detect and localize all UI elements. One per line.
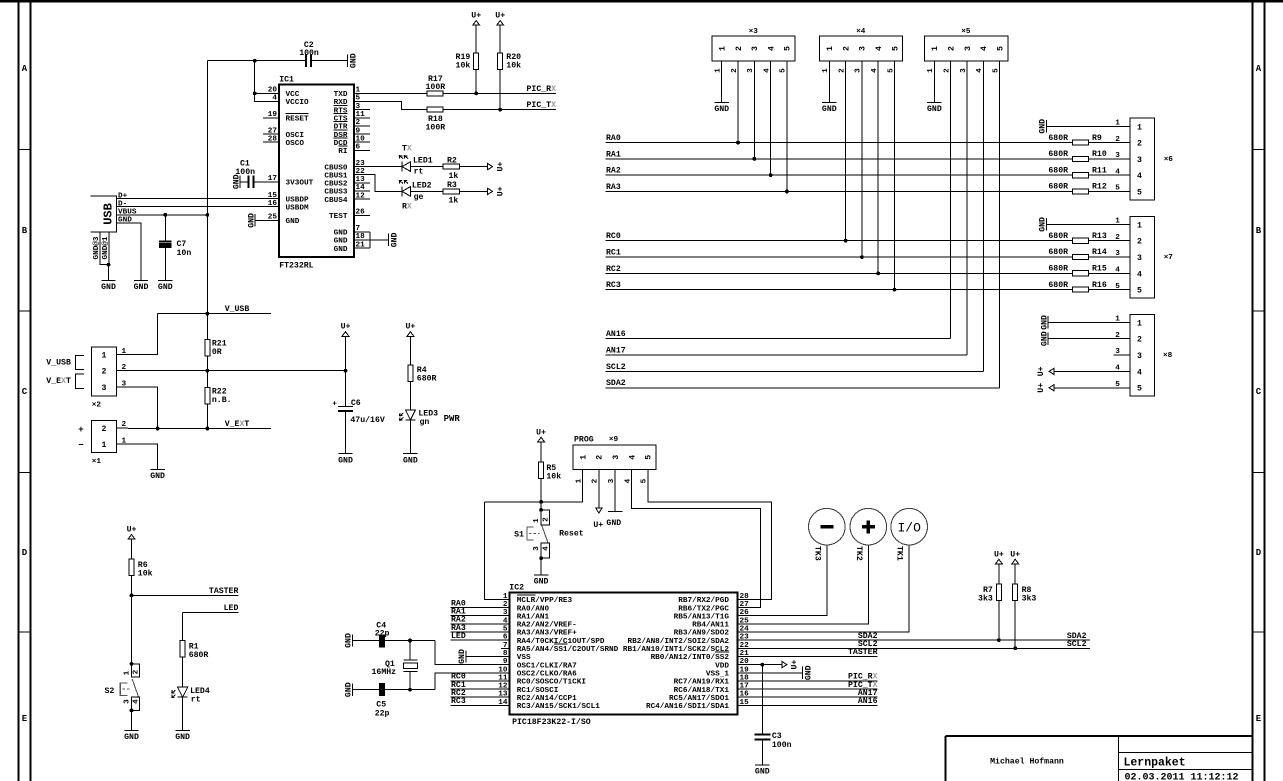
wire R14 to X7 xyxy=(1089,256,1130,258)
svg-text:U+: U+ xyxy=(496,186,505,196)
svg-text:21: 21 xyxy=(356,241,366,249)
ground at C2 xyxy=(347,53,358,68)
svg-text:20: 20 xyxy=(268,87,278,95)
wire shield pins to ground xyxy=(108,265,110,281)
junction shield ground xyxy=(107,263,111,267)
svg-text:10k: 10k xyxy=(506,61,521,71)
wire net RA0 to IC2 xyxy=(451,607,510,609)
svg-text:V_USB: V_USB xyxy=(225,305,250,314)
ground at IC2 VSS xyxy=(458,649,467,664)
svg-text:SDA2: SDA2 xyxy=(606,379,626,388)
junction X4 pin2 xyxy=(844,239,848,243)
IC2 pin 11 RC0/SOSCO/T1CKI xyxy=(498,674,586,686)
V+ supply at R8 xyxy=(1010,550,1020,566)
X8 pin 3 stub xyxy=(1114,354,1130,356)
wire R15 to X7 xyxy=(1089,272,1130,274)
wire V+ to R5 xyxy=(540,444,542,462)
svg-text:3: 3 xyxy=(122,380,127,388)
V+ supply at R5 xyxy=(536,428,546,444)
svg-text:×5: ×5 xyxy=(961,28,971,36)
svg-text:2: 2 xyxy=(1137,238,1142,247)
svg-text:VSS_1: VSS_1 xyxy=(706,671,729,679)
wire V+ to R20 xyxy=(499,28,501,53)
wire X9 pin1 to MCLR xyxy=(582,470,584,502)
resistor R8 xyxy=(1013,584,1018,600)
wire X4 pin3 down to bus xyxy=(861,61,863,257)
IC1 pin 1 TXD xyxy=(334,87,370,100)
wire net RC3 xyxy=(606,289,1073,291)
resistor R7 xyxy=(996,584,1001,600)
svg-text:1: 1 xyxy=(719,46,728,51)
wire V+ to R7 xyxy=(998,566,1000,584)
wire joining IC1 ground pins xyxy=(369,232,371,248)
svg-text:SCL2: SCL2 xyxy=(1067,640,1087,649)
svg-text:S1: S1 xyxy=(514,530,524,539)
svg-text:R2: R2 xyxy=(447,156,457,165)
svg-text:2: 2 xyxy=(122,421,127,429)
V+ supply at C6 xyxy=(341,323,351,339)
svg-text:7: 7 xyxy=(503,642,508,650)
svg-text:12: 12 xyxy=(356,192,366,200)
svg-text:680R: 680R xyxy=(1048,134,1068,143)
svg-text:GND: GND xyxy=(350,53,359,68)
IC2 pin 15 RC4/AN16/SDI1/SDA1 xyxy=(646,699,749,711)
IC1 pin 16 USBDM xyxy=(263,200,309,213)
X4 pin 2 xyxy=(838,46,851,73)
svg-text:14: 14 xyxy=(356,184,366,192)
V+ supply at R6 xyxy=(127,526,137,542)
svg-text:×2: ×2 xyxy=(92,401,102,409)
svg-text:19: 19 xyxy=(268,111,278,119)
junction V+ rail at C6 xyxy=(344,369,348,373)
svg-text:×9: ×9 xyxy=(609,436,619,444)
svg-text:RB3/AN9/SDO2: RB3/AN9/SDO2 xyxy=(674,630,730,638)
IC1 pin 19 RESET xyxy=(263,111,309,124)
wire ground to C1 xyxy=(240,181,248,183)
svg-text:4: 4 xyxy=(628,455,637,460)
svg-text:4: 4 xyxy=(980,46,989,51)
wire C4 to OSC1 node xyxy=(385,640,435,642)
svg-text:1: 1 xyxy=(122,437,127,445)
svg-text:U+: U+ xyxy=(496,162,505,172)
svg-text:gn: gn xyxy=(420,418,430,427)
wire LED down to R1 xyxy=(182,612,184,640)
crystal Q1 xyxy=(403,641,417,690)
X5 pin 5 xyxy=(992,46,1005,73)
wire net RC0 to IC2 xyxy=(451,680,510,682)
wire VCC spine to VCCIO pin xyxy=(255,61,263,102)
svg-text:RC3: RC3 xyxy=(606,281,621,290)
IC1 pin 22 CBUS1 xyxy=(324,168,370,181)
wire V+ to C6 xyxy=(345,339,347,407)
svg-text:TXD: TXD xyxy=(334,91,348,99)
wire CBUS1 to LED2 xyxy=(370,175,402,192)
svg-text:LED: LED xyxy=(451,632,466,641)
IC2 pin 21 RB0/AN12/INT0/SS2 xyxy=(651,650,750,662)
svg-text:2: 2 xyxy=(133,669,141,674)
svg-text:I/O: I/O xyxy=(897,521,921,536)
svg-text:RA5/AN4/SS1/C2OUT/SRND: RA5/AN4/SS1/C2OUT/SRND xyxy=(517,646,619,654)
IC2 pin 6 RA4/T0CKI/C1OUT/SPD xyxy=(501,634,605,646)
svg-text:U+: U+ xyxy=(471,12,481,21)
wire R6 to S2 xyxy=(131,575,133,664)
resistor R3 xyxy=(443,189,459,194)
svg-text:IC2: IC2 xyxy=(509,583,524,592)
frame top border xyxy=(0,0,1283,2)
junction X3 pin3 xyxy=(752,157,756,161)
wire X9 pin4 PGC to IC2 pin 27 xyxy=(632,470,761,608)
svg-text:×8: ×8 xyxy=(1163,352,1173,360)
capacitor C5 xyxy=(379,683,385,696)
touch key TK1 xyxy=(891,508,928,545)
svg-text:GND: GND xyxy=(458,649,467,664)
wire R22 to V_EXT xyxy=(206,404,208,428)
wire X5 pin4 down to bus xyxy=(982,61,984,372)
junction X4 pin5 xyxy=(893,288,897,292)
wire R13 to X7 xyxy=(1089,240,1130,242)
junction V+ rail at R21/R22 xyxy=(206,369,210,373)
X5 pin 2 xyxy=(944,46,957,73)
svg-text:6: 6 xyxy=(356,144,361,152)
svg-text:1: 1 xyxy=(1137,319,1142,328)
svg-text:680R: 680R xyxy=(1048,281,1068,290)
wire net RA3 xyxy=(606,191,1073,193)
svg-text:CBUS3: CBUS3 xyxy=(324,189,347,197)
svg-text:S2: S2 xyxy=(105,687,115,696)
junction X4 pin4 xyxy=(876,272,880,276)
junction X3 pin4 xyxy=(769,173,773,177)
svg-text:USBDM: USBDM xyxy=(286,204,309,212)
V+ arrow at X8 pin 5 xyxy=(1049,385,1054,391)
svg-text:100R: 100R xyxy=(426,83,446,92)
resistor R6 xyxy=(129,559,134,575)
svg-text:GND: GND xyxy=(124,733,139,742)
wire V_USB vertical spine xyxy=(206,61,208,340)
svg-text:GND: GND xyxy=(247,213,256,228)
junction S1 bottom xyxy=(539,556,543,560)
X7 pin 4 xyxy=(1115,267,1142,280)
svg-text:DTR: DTR xyxy=(334,124,348,132)
IC2 pin 23 RB2/AN8/INT2/SOI2/SDA2 xyxy=(628,634,750,646)
IC2 pin 10 OSC2/CLKO/RA6 xyxy=(498,666,577,678)
capacitor C3 xyxy=(755,734,771,739)
svg-text:TX: TX xyxy=(402,145,412,154)
X1 pin 2 xyxy=(102,421,128,434)
X8 pin 4 xyxy=(1115,365,1142,378)
svg-text:V_USB: V_USB xyxy=(46,358,71,367)
svg-text:U+: U+ xyxy=(994,550,1004,559)
svg-text:2: 2 xyxy=(735,46,744,51)
LED2 yellow RX LED xyxy=(399,180,411,196)
wire IC2 pin 25 to TK2 xyxy=(746,545,869,624)
svg-text:2: 2 xyxy=(948,46,957,51)
resistor R20 xyxy=(498,53,503,69)
svg-text:1: 1 xyxy=(356,87,361,95)
wire X1 pin 1 to ground xyxy=(128,444,158,469)
svg-text:680R: 680R xyxy=(417,375,437,384)
wire USB VBUS to V_USB spine xyxy=(117,214,208,216)
IC2 pin 28 RB7/RX2/PGD xyxy=(678,593,749,605)
svg-text:10: 10 xyxy=(356,135,366,143)
X9 pin 4 xyxy=(624,455,637,484)
wire net SDA2 xyxy=(606,387,1000,389)
svg-text:7: 7 xyxy=(356,225,361,233)
X4 pin 5 xyxy=(887,46,900,73)
svg-text:2: 2 xyxy=(596,455,605,460)
ground at USB shield xyxy=(101,281,116,293)
svg-text:GND: GND xyxy=(1040,315,1049,330)
wire USB D+ to USBDP xyxy=(117,198,263,200)
resistor R4 xyxy=(408,365,413,381)
svg-text:Reset: Reset xyxy=(559,530,584,539)
wire ground to pin 25 xyxy=(255,219,263,221)
X7 pin 1 xyxy=(1115,218,1142,231)
svg-text:2: 2 xyxy=(1137,336,1142,345)
connector X2 xyxy=(92,347,117,396)
svg-text:×1: ×1 xyxy=(92,458,102,466)
wire R7 to SDA2 xyxy=(998,600,1000,640)
svg-text:×3: ×3 xyxy=(749,28,759,36)
svg-text:GND: GND xyxy=(101,283,116,292)
svg-text:680R: 680R xyxy=(1048,166,1068,175)
wire X4 pin1 to ground xyxy=(828,61,830,103)
wire to VCC pin xyxy=(255,92,263,94)
wire X6 pin1 to ground xyxy=(1046,125,1130,127)
svg-text:3: 3 xyxy=(356,103,361,111)
IC1 pin 7 GND xyxy=(334,225,370,238)
svg-text:E: E xyxy=(1256,714,1262,724)
svg-text:ge: ge xyxy=(414,193,424,202)
svg-text:rt: rt xyxy=(191,696,201,705)
svg-text:RC7/AN19/RX1: RC7/AN19/RX1 xyxy=(674,679,730,687)
svg-text:3: 3 xyxy=(751,46,760,51)
svg-text:RA1/AN1: RA1/AN1 xyxy=(517,613,550,621)
connector X7 xyxy=(1130,216,1155,298)
wire X8 pin2 to ground xyxy=(1048,338,1130,340)
svg-text:SCL2: SCL2 xyxy=(606,363,626,372)
svg-text:GND: GND xyxy=(175,733,190,742)
svg-text:TK1: TK1 xyxy=(895,546,904,561)
svg-text:U+: U+ xyxy=(127,526,137,535)
svg-text:GND: GND xyxy=(714,105,729,114)
svg-text:CBUS2: CBUS2 xyxy=(324,181,347,189)
IC1 pin 28 OSCO xyxy=(263,135,304,148)
svg-text:1k: 1k xyxy=(449,171,459,181)
wire net RC2 to IC2 xyxy=(451,696,510,698)
svg-text:C3: C3 xyxy=(772,732,782,741)
svg-text:18: 18 xyxy=(356,233,366,241)
ground at X3 pin 1 xyxy=(714,102,729,114)
wire X5 pin1 to ground xyxy=(933,61,935,103)
wire net SCL2 xyxy=(746,647,1090,649)
ground at S1 xyxy=(534,575,549,587)
svg-text:27: 27 xyxy=(740,601,750,609)
resistor R11 xyxy=(1072,173,1088,178)
ground at C5 xyxy=(345,682,354,697)
svg-text:Michael Hofmann: Michael Hofmann xyxy=(990,757,1064,767)
wire S1 to ground xyxy=(540,558,542,575)
connector X8 xyxy=(1130,314,1155,396)
wire ground to C5 xyxy=(353,689,379,691)
svg-text:GND: GND xyxy=(158,283,173,292)
junction VCC spine top xyxy=(253,59,257,63)
resistor R2 xyxy=(443,164,459,169)
X8 pin 5 xyxy=(1115,381,1142,394)
svg-text:3: 3 xyxy=(1137,352,1142,361)
wire X5 pin3 down to bus xyxy=(966,61,968,355)
svg-text:RA3/AN3/VREF+: RA3/AN3/VREF+ xyxy=(517,630,577,638)
wire R5 to S1 xyxy=(540,478,542,510)
svg-text:RA4/T0CKI/C1OUT/SPD: RA4/T0CKI/C1OUT/SPD xyxy=(517,638,605,646)
svg-text:26: 26 xyxy=(356,209,366,217)
svg-text:rt: rt xyxy=(414,168,424,177)
wire LED2 to R3 xyxy=(411,190,443,192)
svg-text:LED3: LED3 xyxy=(418,409,438,418)
junction X4 pin3 xyxy=(860,255,864,259)
svg-text:RB2/AN8/INT2/SOI2/SDA2: RB2/AN8/INT2/SOI2/SDA2 xyxy=(628,638,730,646)
svg-text:A: A xyxy=(22,64,28,74)
svg-text:AN16: AN16 xyxy=(606,330,626,339)
svg-text:TASTER: TASTER xyxy=(209,587,239,596)
svg-text:100n: 100n xyxy=(772,741,792,750)
svg-text:16: 16 xyxy=(268,200,278,208)
wire net V_EXT xyxy=(128,428,271,430)
IC1 pin 21 GND xyxy=(334,241,370,254)
wire net RC1 to IC2 xyxy=(451,688,510,690)
svg-text:GND@1: GND@1 xyxy=(102,236,110,259)
svg-text:RB1/AN10/INT1/SCK2/SCL2: RB1/AN10/INT1/SCK2/SCL2 xyxy=(623,646,729,654)
svg-text:5: 5 xyxy=(891,46,900,51)
X8 pin 2 xyxy=(1115,332,1142,345)
svg-text:RA2: RA2 xyxy=(606,167,621,176)
wire X3 pin5 down to bus xyxy=(786,61,788,192)
resistor R10 xyxy=(1072,156,1088,161)
svg-text:2: 2 xyxy=(1137,140,1142,149)
X7 pin 3 xyxy=(1115,250,1142,263)
switch S1 actuator bracket xyxy=(527,527,534,540)
resistor R17 xyxy=(427,91,443,96)
svg-text:RC3: RC3 xyxy=(451,697,466,706)
X9 pin 3 xyxy=(608,455,621,484)
wire X8 pin4 to U+ xyxy=(1054,370,1130,372)
svg-text:R12: R12 xyxy=(1092,183,1107,192)
svg-text:GND: GND xyxy=(1039,119,1048,134)
ground at X4 pin 1 xyxy=(822,102,837,114)
svg-text:IC1: IC1 xyxy=(279,76,294,85)
junction SCL2 at R8 xyxy=(1013,646,1017,650)
wire net RA3 to IC2 xyxy=(451,631,510,633)
svg-text:47u/16V: 47u/16V xyxy=(350,415,384,425)
bracket V_EXT xyxy=(76,374,84,388)
V+ arrow at X9 pin 2 xyxy=(596,508,602,513)
svg-text:USBDP: USBDP xyxy=(286,196,309,204)
svg-text:4: 4 xyxy=(272,95,277,103)
svg-text:CBUS1: CBUS1 xyxy=(324,172,347,180)
junction OSC2 at crystal xyxy=(408,688,412,692)
wire net RA1 to IC2 xyxy=(451,615,510,617)
wire X4 pin4 down to bus xyxy=(877,61,879,274)
svg-text:3: 3 xyxy=(1137,156,1142,165)
svg-text:13: 13 xyxy=(356,176,366,184)
svg-text:RB7/RX2/PGD: RB7/RX2/PGD xyxy=(678,597,729,605)
wire X7 pin1 to ground xyxy=(1046,223,1130,225)
wire VDD down to C3 xyxy=(761,665,763,734)
IC1 pin 12 CBUS4 xyxy=(324,192,370,205)
wire LED1 to R2 xyxy=(411,166,443,168)
IC1 pin 11 CTS xyxy=(334,111,370,124)
svg-text:RB4/AN11: RB4/AN11 xyxy=(692,622,729,630)
wire net TASTER at IC2 xyxy=(746,656,878,658)
X9 pin 1 xyxy=(575,455,588,484)
junction at VCC pin xyxy=(253,92,257,96)
IC1 pin 6 RI xyxy=(338,144,370,157)
resistor R12 xyxy=(1072,189,1088,194)
connector X1 xyxy=(92,420,117,452)
svg-text:10k: 10k xyxy=(138,568,153,578)
svg-text:5: 5 xyxy=(1137,189,1142,198)
svg-text:AN16: AN16 xyxy=(858,697,878,706)
svg-text:4: 4 xyxy=(875,46,884,51)
svg-text:×4: ×4 xyxy=(856,28,866,36)
svg-text:27: 27 xyxy=(268,127,278,135)
wire USB D- to USBDM xyxy=(117,206,263,208)
capacitor C2 xyxy=(306,54,311,67)
svg-text:OSC1/CLKI/RA7: OSC1/CLKI/RA7 xyxy=(517,662,577,670)
svg-text:RC2: RC2 xyxy=(606,265,621,274)
resistor R9 xyxy=(1072,140,1088,145)
svg-text:USB: USB xyxy=(102,203,116,225)
svg-text:5: 5 xyxy=(996,46,1005,51)
wire R20 to PIC_TX xyxy=(499,69,501,109)
wire R9 to X6 xyxy=(1089,142,1130,144)
wire MCLR to IC2 pin 1 xyxy=(485,502,510,600)
wire IC2 pin 24 to TK1 xyxy=(746,545,910,632)
resistor R19 xyxy=(474,53,479,69)
wire R12 to X6 xyxy=(1089,191,1130,193)
junction X3 pin2 xyxy=(736,141,740,145)
wire OSC2 node to IC2 pin 10 xyxy=(435,673,509,690)
svg-text:RA0/AN0: RA0/AN0 xyxy=(517,605,550,613)
wire R11 to X6 xyxy=(1089,174,1130,176)
resistor R21 xyxy=(205,340,210,356)
svg-text:RC0/SOSCO/T1CKI: RC0/SOSCO/T1CKI xyxy=(517,679,587,687)
connector X3 xyxy=(712,36,795,61)
svg-text:1: 1 xyxy=(1137,221,1142,230)
svg-text:VSS: VSS xyxy=(517,654,531,662)
svg-text:10n: 10n xyxy=(177,249,192,258)
switch S1 lever xyxy=(542,526,548,544)
svg-text:1: 1 xyxy=(503,593,508,601)
switch S2 lever xyxy=(132,679,138,697)
svg-text:GND: GND xyxy=(338,456,353,465)
svg-text:RB6/TX2/PGC: RB6/TX2/PGC xyxy=(678,605,729,613)
switch S1 upper contact xyxy=(541,510,549,525)
IC2 pin 2 RA0/AN0 xyxy=(501,601,549,613)
wire X2 pin 2 to V+ rail xyxy=(128,370,346,372)
IC2 pin 7 RA5/AN4/SS1/C2OUT/SRND xyxy=(501,642,618,654)
USB shield pins box xyxy=(100,232,109,265)
wire C7 to ground xyxy=(164,248,166,281)
svg-text:GND: GND xyxy=(1040,331,1049,346)
connector X5 xyxy=(925,36,1008,61)
junction PIC_TX at R20 xyxy=(498,108,502,112)
svg-text:RTS: RTS xyxy=(334,107,348,115)
svg-text:680R: 680R xyxy=(1048,265,1068,274)
wire net PIC_RX at IC2 xyxy=(746,680,878,682)
IC1 pin 23 CBUS0 xyxy=(324,160,370,173)
ground at IC1 pin 25 xyxy=(247,213,256,228)
X8 pin 1 xyxy=(1115,316,1142,329)
